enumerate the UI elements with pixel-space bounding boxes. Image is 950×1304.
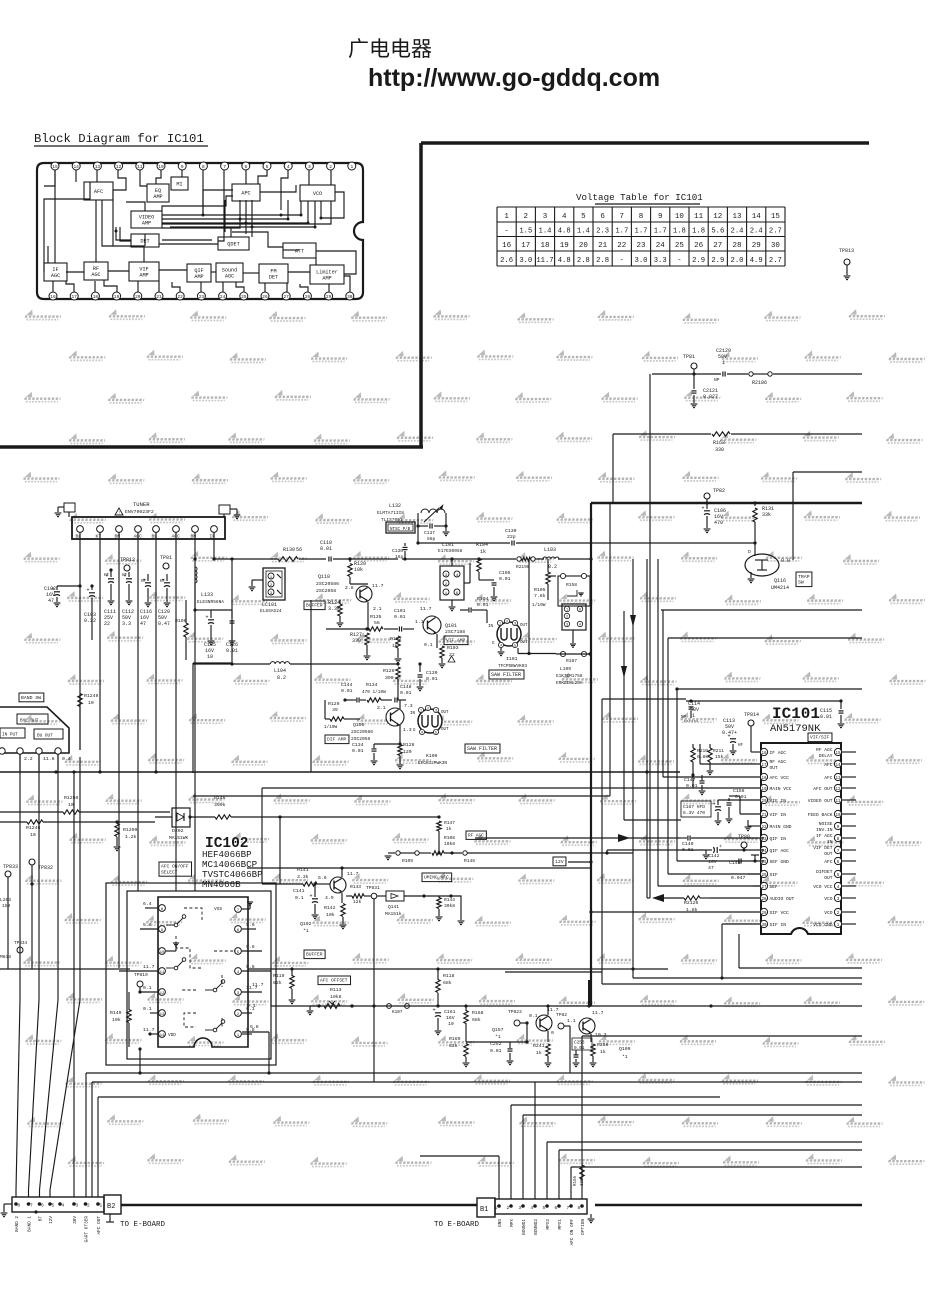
test point TP81b: [163, 563, 169, 569]
svg-text:TO E-BOARD: TO E-BOARD: [120, 1221, 166, 1229]
svg-text:I101: I101: [506, 656, 518, 662]
svg-text:R169: R169: [449, 1036, 461, 1042]
wire top thick v: [588, 980, 590, 1006]
wire qif agc 850: [606, 850, 608, 853]
svg-text:10: 10: [30, 832, 36, 838]
svg-text:BUFFER: BUFFER: [306, 952, 323, 958]
svg-text:2SC2058: 2SC2058: [351, 736, 371, 742]
svg-text:1.1: 1.1: [415, 619, 424, 625]
svg-text:29: 29: [752, 242, 761, 250]
block diagram internal wires: [44, 170, 356, 292]
svg-text:NOISE: NOISE: [819, 821, 833, 827]
svg-text:28: 28: [761, 898, 767, 902]
svg-text:2: 2: [329, 164, 332, 170]
wire v677: [676, 689, 678, 861]
svg-text:5.6: 5.6: [246, 944, 255, 950]
svg-text:R2126: R2126: [684, 900, 699, 906]
capacitor C111: [108, 578, 114, 580]
svg-text:SIF: SIF: [770, 872, 779, 878]
IC101 pin 4 VCO VCC: [834, 882, 841, 889]
svg-text:D202: D202: [172, 828, 184, 834]
svg-text:9: 9: [658, 213, 663, 221]
block diagram bottom pin 26: [261, 292, 269, 300]
svg-text:7: 7: [620, 213, 625, 221]
svg-text:IF AGC: IF AGC: [770, 750, 787, 756]
svg-text:R109: R109: [402, 858, 413, 864]
svg-text:24: 24: [220, 294, 226, 300]
svg-text:8: 8: [202, 164, 205, 170]
svg-text:VCO: VCO: [313, 191, 322, 197]
svg-text:AFC: AFC: [824, 859, 833, 865]
svg-text:11.7: 11.7: [372, 583, 384, 589]
IC101 pin 6 AFC: [834, 857, 841, 864]
block diagram bottom pin 18: [91, 292, 99, 300]
svg-text:SIF VCC: SIF VCC: [770, 910, 790, 916]
block MI: [171, 177, 188, 190]
svg-text:12: 12: [116, 164, 122, 170]
svg-text:3.0: 3.0: [635, 257, 648, 265]
svg-text:OUT: OUT: [824, 875, 833, 881]
svg-text:10: 10: [675, 213, 685, 221]
svg-text:R106: R106: [175, 618, 187, 624]
IC102 pin 8: [159, 905, 166, 912]
svg-text:TP812: TP812: [120, 557, 135, 563]
svg-text:5: 5: [52, 1203, 55, 1209]
svg-text:AGC: AGC: [225, 274, 234, 280]
wire main IF line: [214, 558, 278, 560]
capacitor C2129: [722, 372, 724, 377]
svg-text:MAIN VCC: MAIN VCC: [770, 786, 792, 792]
block VIDEO AMP: [131, 211, 162, 228]
svg-text:R130: R130: [283, 547, 295, 553]
test point TP81: [691, 363, 697, 369]
box BAND SW: [19, 693, 44, 702]
svg-text:L203: L203: [0, 897, 11, 903]
tuner pin wires: [79, 545, 81, 750]
voltage table grid: [497, 207, 785, 266]
svg-text:68k: 68k: [443, 980, 452, 986]
svg-text:Block Diagram for IC101: Block Diagram for IC101: [34, 132, 204, 146]
svg-text:DIFDET: DIFDET: [816, 869, 833, 875]
box BUFFER 2: [304, 950, 325, 959]
wire v633 arrow: [632, 559, 634, 978]
IC102 pin 6: [235, 926, 242, 933]
svg-text:R211: R211: [713, 748, 724, 754]
capacitor C137: [417, 513, 419, 543]
svg-text:HF: HF: [141, 580, 147, 584]
svg-text:1.8: 1.8: [692, 227, 705, 235]
svg-text:R144: R144: [444, 897, 455, 903]
wire 30V vertical: [73, 772, 75, 1197]
svg-text:NP: NP: [714, 377, 720, 383]
svg-text:Q109: Q109: [619, 1046, 631, 1052]
svg-text:0.01: 0.01: [477, 602, 489, 608]
svg-text:12V: 12V: [555, 859, 564, 865]
wire middle enclosure top: [193, 662, 232, 664]
svg-text:AUDIO OUT: AUDIO OUT: [770, 896, 795, 902]
transistor Q105 DIF AMP: [386, 708, 404, 726]
svg-text:UMING AFC: UMING AFC: [424, 875, 449, 881]
wire vertical 650: [649, 374, 651, 898]
svg-text:11.7: 11.7: [347, 871, 359, 877]
svg-text:+: +: [702, 506, 705, 512]
wire IC102 pin1 corner: [242, 1031, 269, 1033]
svg-text:R143: R143: [350, 884, 361, 890]
svg-text:TP80: TP80: [738, 834, 750, 840]
block diagram bottom pin 30: [346, 292, 354, 300]
svg-text:DELAY: DELAY: [819, 753, 833, 759]
svg-text:VIF DET: VIF DET: [813, 845, 833, 851]
svg-text:广电电器: 广电电器: [348, 38, 432, 61]
IC101 pin 3 VCO: [834, 894, 841, 901]
svg-text:56p: 56p: [427, 536, 436, 542]
block diagram bottom pin 28: [303, 292, 311, 300]
svg-text:15: 15: [52, 164, 58, 170]
IC101 pin 8 IF AGC IN: [834, 834, 841, 841]
svg-text:K107: K107: [392, 1010, 403, 1015]
block diagram bottom pin 19: [113, 292, 121, 300]
svg-text:IN: IN: [488, 625, 494, 629]
svg-text:4.8: 4.8: [558, 227, 571, 235]
IC101 pin 14 AFC: [834, 760, 841, 767]
svg-text:BYL OUT: BYL OUT: [20, 719, 39, 724]
svg-text:1k: 1k: [446, 826, 452, 832]
svg-text:2: 2: [524, 213, 529, 221]
block diagram top pin 8: [199, 162, 207, 170]
svg-text:AMP: AMP: [139, 273, 148, 279]
svg-text:SW: SW: [798, 580, 804, 586]
wire K101 out: [517, 648, 519, 654]
svg-text:VIF AMP: VIF AMP: [446, 638, 466, 644]
block diagram bottom pin 17: [70, 292, 78, 300]
svg-text:OUT: OUT: [520, 624, 528, 628]
svg-text:29: 29: [326, 294, 332, 300]
block diagram top pin 7: [221, 162, 229, 170]
svg-text:TFCPDBWVK03: TFCPDBWVK03: [498, 664, 527, 669]
svg-text:http://www.go-gddq.com: http://www.go-gddq.com: [368, 64, 660, 92]
svg-text:9: 9: [181, 164, 184, 170]
band switch pin 1: [0, 748, 5, 754]
svg-text:0.1: 0.1: [529, 1013, 538, 1019]
wire y788: [262, 787, 693, 789]
svg-text:SEF: SEF: [770, 884, 779, 890]
svg-text:QIF AGC: QIF AGC: [770, 848, 790, 854]
svg-text:TRAP: TRAP: [798, 574, 810, 580]
band switch pin 3: [36, 748, 42, 754]
svg-text:TP834: TP834: [14, 941, 28, 946]
svg-text:C147: C147: [684, 777, 696, 783]
svg-text:R105: R105: [534, 587, 546, 593]
svg-text:1k: 1k: [480, 549, 486, 555]
test point TP813: [844, 259, 850, 265]
svg-text:7.3: 7.3: [404, 703, 413, 709]
svg-text:14: 14: [73, 164, 79, 170]
svg-text:22: 22: [104, 621, 110, 627]
IC101 pin 27 SEF: [760, 882, 767, 889]
block diagram bottom pin 16: [49, 292, 57, 300]
resistor R211: [708, 748, 712, 762]
connector B2 pin 2: [84, 1202, 88, 1206]
svg-text:2.8: 2.8: [345, 585, 354, 591]
capacitor C139: [398, 663, 420, 665]
IC101 pin 12 AFC OUT: [834, 784, 841, 791]
svg-text:0.01: 0.01: [499, 576, 511, 582]
svg-text:QIF IN: QIF IN: [770, 836, 787, 842]
svg-text:4: 4: [287, 164, 290, 170]
svg-text:12: 12: [835, 788, 841, 792]
svg-text:*1: *1: [622, 1054, 628, 1060]
svg-text:22: 22: [617, 242, 626, 250]
insert border top edge: [421, 141, 869, 145]
svg-text:IN: IN: [410, 712, 416, 716]
svg-text:33k: 33k: [762, 512, 771, 518]
svg-text:TP81: TP81: [160, 555, 172, 561]
svg-text:0.47: 0.47: [158, 621, 170, 627]
connector B2 pin 7: [27, 1202, 31, 1206]
svg-text:HF: HF: [122, 574, 128, 578]
svg-text:0.1: 0.1: [424, 642, 433, 648]
wire v602 box: [601, 699, 603, 972]
svg-text:12V: 12V: [49, 1216, 54, 1224]
svg-text:R148: R148: [464, 858, 475, 864]
resistor R147: [231, 816, 439, 818]
resistor R120: [349, 559, 351, 562]
svg-text:DIF AMP: DIF AMP: [327, 737, 347, 743]
svg-text:Q141: Q141: [388, 904, 399, 910]
tuner pin AFC: [173, 526, 180, 533]
svg-text:27: 27: [283, 294, 289, 300]
svg-text:22p: 22p: [507, 534, 516, 540]
block diagram top pin 2: [327, 162, 335, 170]
svg-text:2SC20586: 2SC20586: [316, 581, 339, 587]
IC101 pin 10 FEED BACK: [834, 810, 841, 817]
svg-text:ELMTA713I8: ELMTA713I8: [377, 510, 404, 516]
svg-text:2.7: 2.7: [769, 257, 782, 265]
voltage table values: [500, 213, 782, 265]
svg-text:4.9: 4.9: [325, 895, 334, 901]
svg-text:TP819: TP819: [134, 972, 148, 978]
svg-text:2.8: 2.8: [577, 257, 590, 265]
svg-text:0.047: 0.047: [731, 875, 746, 881]
svg-text:C136: C136: [392, 548, 403, 554]
svg-text:MPX: MPX: [510, 1219, 515, 1227]
svg-text:2: 2: [507, 1205, 510, 1211]
svg-text:C134: C134: [352, 742, 364, 748]
svg-text:R158: R158: [566, 582, 577, 588]
svg-text:ELESNR56NA: ELESNR56NA: [197, 599, 224, 605]
svg-text:AFC OFFSET: AFC OFFSET: [320, 978, 348, 984]
svg-text:30V: 30V: [73, 1216, 78, 1224]
svg-text:L101: L101: [442, 542, 454, 548]
svg-text:-: -: [620, 257, 624, 265]
svg-text:BUFFER: BUFFER: [306, 603, 323, 609]
svg-text:R1246: R1246: [26, 825, 41, 831]
insert border right edge: [419, 143, 423, 447]
resistor R131: [754, 503, 756, 506]
svg-text:5: 5: [266, 164, 269, 170]
svg-text:HF: HF: [104, 574, 110, 578]
wire v658: [657, 559, 659, 886]
svg-text:GND: GND: [498, 1219, 503, 1227]
svg-text:1.1: 1.1: [567, 1018, 576, 1024]
wire h1006: [271, 1005, 862, 1007]
wire corner B2 pin 2: [85, 1073, 87, 1197]
svg-text:AFC OUT: AFC OUT: [97, 1216, 102, 1235]
svg-text:VIF/SIF: VIF/SIF: [810, 735, 830, 741]
saw filter K101: [497, 622, 521, 646]
block diagram top pin 3: [305, 162, 313, 170]
svg-text:13: 13: [160, 1013, 165, 1017]
svg-text:4: 4: [62, 1203, 65, 1209]
IC101 outline: [761, 743, 841, 934]
svg-text:30: 30: [771, 242, 781, 250]
svg-text:OPTION: OPTION: [581, 1219, 586, 1235]
svg-text:+: +: [310, 894, 313, 900]
connector B2 pin 1: [96, 1202, 100, 1206]
svg-text:1k: 1k: [600, 1049, 606, 1055]
test point TP82: [704, 493, 710, 499]
capacitor C130: [418, 542, 510, 544]
svg-text:25: 25: [241, 294, 247, 300]
svg-text:TP823: TP823: [508, 1009, 522, 1015]
svg-text:2.2: 2.2: [24, 756, 33, 762]
tuner pin AGC: [135, 526, 142, 533]
svg-text:20: 20: [135, 294, 141, 300]
svg-text:2.1: 2.1: [377, 705, 386, 711]
svg-text:150: 150: [2, 903, 11, 909]
svg-text:+: +: [728, 734, 731, 740]
svg-text:C148: C148: [400, 684, 412, 690]
capacitor C1xx 16V 10: [195, 609, 211, 611]
svg-text:120: 120: [403, 749, 412, 755]
svg-text:8.2: 8.2: [548, 564, 557, 570]
connector B2 pin 5: [48, 1202, 52, 1206]
svg-text:AFC: AFC: [94, 189, 103, 195]
svg-text:-: -: [504, 227, 508, 235]
filter L109: [558, 576, 590, 606]
svg-text:47: 47: [140, 621, 146, 627]
svg-text:16: 16: [50, 294, 56, 300]
svg-text:SEF GND: SEF GND: [770, 859, 790, 865]
box 12V: [553, 857, 566, 866]
svg-text:R187: R187: [566, 658, 577, 664]
wire r144 drop: [451, 896, 461, 920]
band switch pin 2: [17, 748, 23, 754]
svg-text:FEED BACK: FEED BACK: [808, 812, 833, 818]
block diagram top pin 1: [348, 162, 356, 170]
wire misc verticals mid: [270, 971, 272, 1006]
svg-text:29: 29: [761, 912, 767, 916]
svg-text:TP82: TP82: [713, 488, 725, 494]
box VIF AMP: [444, 636, 468, 645]
box DIF AMP: [325, 735, 349, 744]
box VIF/SIF: [808, 733, 832, 742]
svg-text:R210: R210: [697, 748, 708, 754]
svg-text:11.7: 11.7: [420, 606, 432, 612]
svg-text:1.4: 1.4: [577, 227, 590, 235]
svg-text:15: 15: [835, 752, 841, 756]
svg-text:AFC VCC: AFC VCC: [770, 775, 790, 781]
resistor R124: [338, 604, 342, 616]
svg-text:17: 17: [761, 764, 767, 768]
svg-text:0.4: 0.4: [62, 756, 71, 762]
svg-text:25: 25: [675, 242, 685, 250]
svg-text:17: 17: [521, 242, 530, 250]
svg-text:0.01: 0.01: [352, 748, 364, 754]
wire mid risers: [646, 559, 648, 898]
svg-text:8.2: 8.2: [277, 675, 286, 681]
IC101 pin 24 QIF AGC: [760, 846, 767, 853]
wire v650 arrow: [621, 666, 627, 678]
svg-text:10: 10: [68, 802, 74, 808]
svg-text:23: 23: [199, 294, 205, 300]
IC102 outline: [158, 897, 248, 1047]
block diagram top pin 14: [72, 162, 80, 170]
block AFC: [84, 182, 113, 200]
svg-text:D: D: [748, 549, 751, 555]
svg-text:BOUND1: BOUND1: [522, 1219, 527, 1235]
svg-text:C156: C156: [733, 788, 745, 794]
wire TP82 bus: [591, 502, 862, 504]
svg-text:R147: R147: [444, 820, 455, 826]
band switch block: [0, 707, 69, 753]
svg-text:VCO: VCO: [824, 896, 833, 902]
transistor Q107: [536, 1015, 552, 1031]
wire trap net: [591, 542, 755, 544]
IC101 pin 23 QIF IN: [760, 834, 767, 841]
svg-text:NP: NP: [681, 716, 687, 720]
block diagram bottom pin 20: [134, 292, 142, 300]
svg-text:4: 4: [562, 213, 567, 221]
jumper circles: [387, 1004, 392, 1009]
IC101 pin 19 MAIN VCC: [760, 784, 767, 791]
svg-text:MN4066B: MN4066B: [202, 879, 241, 890]
wire TP81 net: [652, 373, 721, 375]
svg-text:12: 12: [713, 213, 722, 221]
svg-text:3.0: 3.0: [519, 257, 532, 265]
svg-text:2.3: 2.3: [596, 227, 609, 235]
IC101 pin 7 VIF DET OUT: [834, 846, 841, 853]
svg-text:2.9: 2.9: [711, 257, 724, 265]
svg-text:R2190: R2190: [516, 564, 530, 570]
svg-text:ERKZENL2SA: ERKZENL2SA: [556, 681, 583, 686]
svg-text:C167 HFD: C167 HFD: [683, 804, 705, 810]
tuner pin BL: [77, 526, 84, 533]
IC102 left pin wires: [140, 991, 158, 993]
svg-text:GART OT3ER: GART OT3ER: [84, 1216, 89, 1243]
capacitor C126: [211, 609, 232, 611]
wire mid verticals: [231, 559, 233, 664]
svg-text:3: 3: [519, 1205, 522, 1211]
transistor Q110 buffer: [356, 586, 372, 602]
wire band sw to B2 pin 8: [16, 754, 20, 1197]
wire VIF line: [326, 628, 368, 630]
svg-text:R103: R103: [447, 645, 459, 651]
box AFC ON/OFF SELECT: [159, 862, 192, 876]
wire q108 out: [582, 1035, 862, 1037]
svg-text:23: 23: [636, 242, 646, 250]
svg-text:0.22: 0.22: [84, 618, 96, 624]
svg-text:R156: R156: [574, 1175, 578, 1186]
wire band sw drops: [19, 754, 21, 772]
svg-text:10: 10: [207, 654, 213, 660]
svg-text:0.1: 0.1: [247, 1003, 256, 1009]
block diagram bottom pin 25: [240, 292, 248, 300]
resistor R210: [691, 748, 695, 762]
svg-text:2: 2: [87, 1203, 90, 1209]
resistor R102: [397, 634, 399, 636]
IC102 pin 2: [235, 1010, 242, 1017]
